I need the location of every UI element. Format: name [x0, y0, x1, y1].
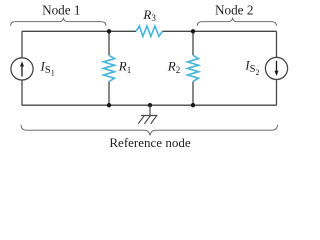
resistor R2	[188, 55, 199, 81]
node dot node 2	[191, 29, 195, 33]
wire right branch (IS2 leads)	[276, 31, 278, 105]
svg-text:R1: R1	[118, 59, 131, 75]
wire R1 leads	[108, 31, 110, 105]
wire top left segment (node 1 rail)	[22, 30, 136, 32]
svg-text:Node 2: Node 2	[215, 3, 253, 18]
node dot node 1	[107, 29, 111, 33]
current source IS1	[11, 58, 33, 80]
svg-text:R3: R3	[142, 7, 156, 23]
node dot bottom ground	[148, 103, 152, 107]
wire R2 leads	[192, 31, 194, 105]
svg-text:R2: R2	[167, 59, 180, 75]
resistor R3	[136, 26, 162, 36]
current source IS2	[265, 57, 287, 79]
svg-text:IS1: IS1	[40, 58, 55, 77]
resistor R1	[104, 55, 115, 81]
brace reference node	[21, 125, 278, 135]
wire left branch (IS1 leads)	[21, 31, 23, 105]
brace node 2	[197, 18, 276, 25]
svg-text:IS2: IS2	[244, 57, 259, 76]
wire bottom (reference rail)	[22, 104, 277, 106]
ground	[138, 105, 157, 124]
node dot bottom R2	[191, 103, 195, 107]
svg-text:Reference node: Reference node	[109, 135, 190, 150]
brace node 1	[11, 18, 107, 25]
svg-text:Node 1: Node 1	[42, 3, 80, 18]
wire top right segment (node 2 rail)	[162, 30, 276, 32]
node dot bottom R1	[107, 103, 111, 107]
